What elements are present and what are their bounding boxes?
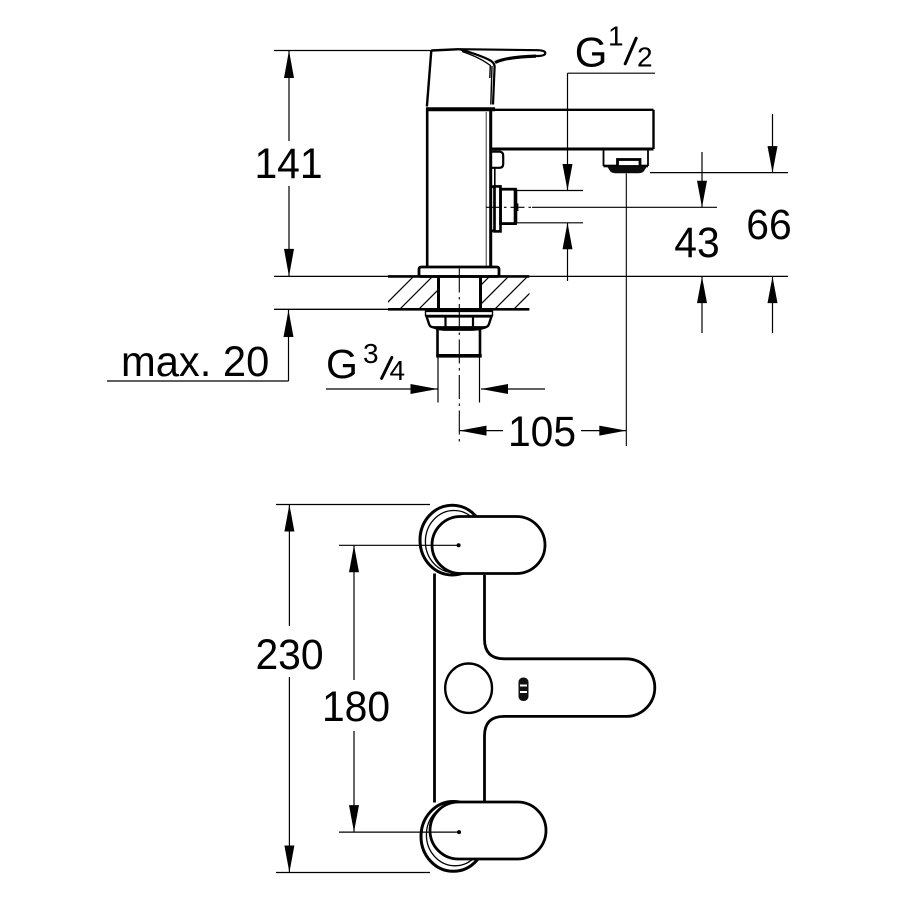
svg-text:G: G (326, 341, 358, 387)
svg-text:141: 141 (254, 139, 322, 187)
svg-text:2: 2 (637, 42, 653, 73)
svg-text:105: 105 (508, 407, 576, 455)
svg-text:180: 180 (322, 682, 390, 730)
svg-text:3: 3 (363, 338, 379, 369)
svg-text:43: 43 (674, 218, 719, 266)
svg-text:230: 230 (255, 630, 323, 678)
svg-text:1: 1 (608, 21, 624, 52)
svg-text:G: G (575, 29, 608, 76)
svg-text:max. 20: max. 20 (121, 337, 269, 385)
svg-text:66: 66 (746, 200, 791, 248)
